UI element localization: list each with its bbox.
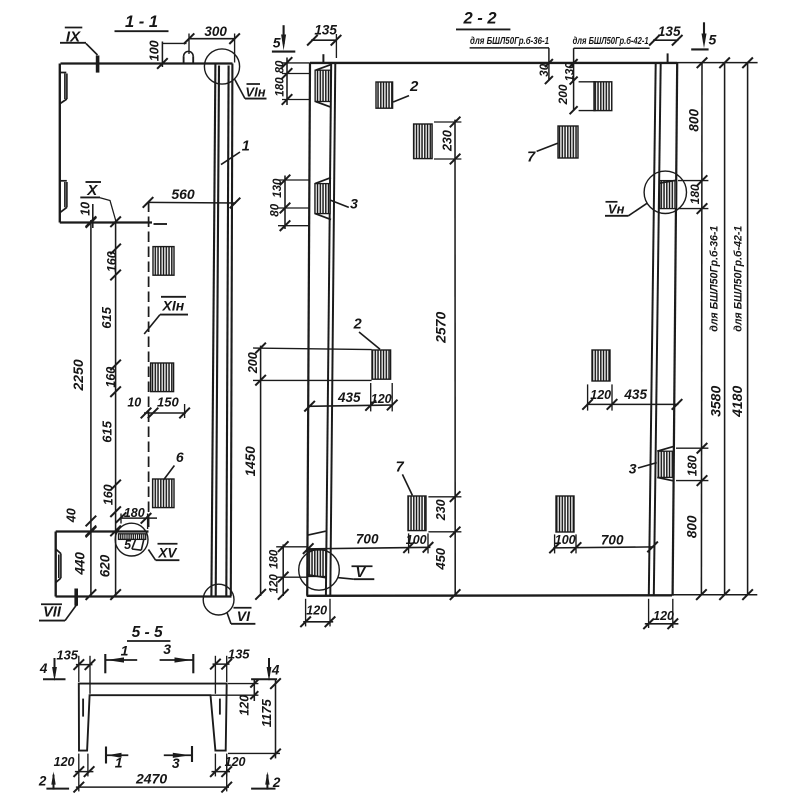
svg-text:VI: VI bbox=[237, 608, 251, 624]
svg-text:5: 5 bbox=[124, 538, 132, 552]
svg-text:1: 1 bbox=[121, 643, 129, 659]
svg-text:180: 180 bbox=[269, 549, 281, 569]
svg-text:5: 5 bbox=[709, 31, 717, 47]
svg-text:7: 7 bbox=[527, 150, 536, 166]
svg-text:180: 180 bbox=[686, 455, 700, 476]
svg-text:X: X bbox=[86, 182, 98, 199]
svg-text:1: 1 bbox=[115, 754, 123, 770]
svg-text:615: 615 bbox=[99, 306, 114, 328]
svg-text:200: 200 bbox=[556, 84, 570, 105]
svg-text:для БШЛ50Гр.б-42-1: для БШЛ50Гр.б-42-1 bbox=[733, 226, 745, 332]
svg-text:100: 100 bbox=[147, 40, 161, 61]
svg-text:440: 440 bbox=[72, 552, 87, 576]
svg-text:800: 800 bbox=[684, 515, 699, 538]
svg-text:3: 3 bbox=[172, 755, 180, 771]
svg-text:4: 4 bbox=[39, 661, 48, 676]
svg-text:120: 120 bbox=[225, 755, 246, 769]
svg-text:4180: 4180 bbox=[729, 386, 745, 418]
svg-text:100: 100 bbox=[555, 533, 576, 547]
svg-text:180: 180 bbox=[688, 184, 702, 204]
svg-text:VIн: VIн bbox=[245, 85, 265, 100]
svg-text:800: 800 bbox=[686, 109, 701, 132]
svg-text:XV: XV bbox=[157, 545, 177, 560]
svg-text:160: 160 bbox=[101, 484, 115, 505]
svg-text:2570: 2570 bbox=[432, 312, 448, 344]
svg-text:435: 435 bbox=[337, 390, 361, 405]
svg-text:120: 120 bbox=[54, 755, 75, 769]
svg-text:130: 130 bbox=[564, 62, 576, 82]
svg-text:2: 2 bbox=[409, 78, 419, 95]
svg-text:120: 120 bbox=[653, 609, 674, 623]
svg-text:300: 300 bbox=[204, 24, 227, 39]
svg-text:450: 450 bbox=[433, 547, 448, 570]
svg-text:10: 10 bbox=[79, 202, 93, 216]
svg-text:Vн: Vн bbox=[608, 201, 625, 216]
svg-text:135: 135 bbox=[314, 22, 337, 37]
svg-text:VII: VII bbox=[43, 605, 62, 621]
svg-text:180: 180 bbox=[124, 506, 145, 520]
svg-text:1 - 1: 1 - 1 bbox=[125, 13, 158, 31]
svg-text:10: 10 bbox=[127, 395, 141, 409]
svg-text:615: 615 bbox=[100, 420, 115, 442]
svg-text:6: 6 bbox=[176, 449, 184, 465]
svg-text:3: 3 bbox=[350, 196, 358, 212]
svg-text:для БШЛ50Гр.б-36-1: для БШЛ50Гр.б-36-1 bbox=[470, 35, 549, 47]
svg-text:3: 3 bbox=[163, 641, 171, 657]
svg-text:120: 120 bbox=[371, 392, 392, 406]
svg-text:135: 135 bbox=[228, 646, 250, 661]
svg-text:80: 80 bbox=[275, 60, 287, 73]
svg-text:3580: 3580 bbox=[708, 386, 724, 417]
svg-text:120: 120 bbox=[237, 695, 251, 716]
svg-text:230: 230 bbox=[434, 499, 448, 521]
svg-text:40: 40 bbox=[65, 508, 79, 523]
svg-text:620: 620 bbox=[98, 554, 113, 577]
svg-text:1450: 1450 bbox=[243, 446, 258, 477]
svg-text:2250: 2250 bbox=[70, 359, 86, 391]
svg-text:4: 4 bbox=[271, 663, 280, 678]
svg-text:IX: IX bbox=[66, 28, 81, 45]
svg-text:120: 120 bbox=[269, 574, 281, 594]
svg-text:30: 30 bbox=[539, 63, 551, 76]
svg-text:для БШЛ50Гр.б-36-1: для БШЛ50Гр.б-36-1 bbox=[709, 226, 721, 332]
svg-text:V: V bbox=[355, 565, 366, 581]
svg-text:120: 120 bbox=[590, 388, 611, 402]
svg-text:435: 435 bbox=[623, 387, 647, 402]
svg-text:135: 135 bbox=[56, 647, 78, 662]
svg-text:3: 3 bbox=[629, 461, 637, 477]
svg-text:1175: 1175 bbox=[259, 698, 274, 727]
svg-text:2: 2 bbox=[38, 774, 47, 789]
svg-text:160: 160 bbox=[105, 251, 119, 272]
svg-text:130: 130 bbox=[272, 178, 284, 198]
svg-text:5: 5 bbox=[273, 34, 281, 50]
svg-text:120: 120 bbox=[306, 603, 327, 617]
svg-text:2 - 2: 2 - 2 bbox=[462, 9, 496, 27]
svg-text:700: 700 bbox=[356, 531, 379, 546]
svg-text:200: 200 bbox=[246, 352, 260, 374]
svg-text:для БШЛ50Гр.б-42-1: для БШЛ50Гр.б-42-1 bbox=[573, 35, 649, 47]
svg-text:160: 160 bbox=[104, 367, 118, 388]
svg-text:230: 230 bbox=[440, 130, 454, 152]
svg-text:2: 2 bbox=[353, 317, 362, 333]
svg-text:135: 135 bbox=[658, 24, 681, 39]
svg-text:2470: 2470 bbox=[135, 770, 167, 786]
svg-text:XIн: XIн bbox=[162, 297, 185, 313]
svg-text:7: 7 bbox=[396, 460, 405, 476]
svg-text:80: 80 bbox=[270, 203, 282, 216]
svg-text:100: 100 bbox=[406, 533, 427, 547]
svg-text:700: 700 bbox=[601, 532, 624, 547]
svg-text:560: 560 bbox=[171, 186, 195, 202]
svg-text:1: 1 bbox=[242, 139, 250, 155]
svg-text:5 - 5: 5 - 5 bbox=[132, 624, 163, 641]
svg-text:180: 180 bbox=[275, 77, 287, 97]
svg-text:150: 150 bbox=[157, 394, 179, 409]
